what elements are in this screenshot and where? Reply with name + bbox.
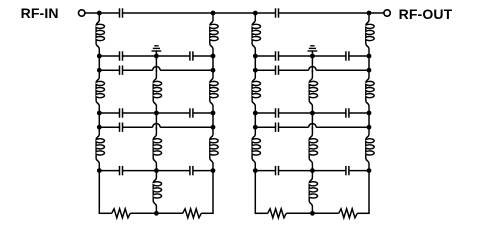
capacitor C6 xyxy=(190,108,193,117)
wire xyxy=(130,212,182,214)
wire xyxy=(357,212,369,214)
node xyxy=(253,125,258,130)
node xyxy=(253,11,258,16)
wire xyxy=(85,12,99,14)
wire xyxy=(193,112,213,114)
wire xyxy=(99,212,111,214)
capacitor C7 xyxy=(120,123,123,132)
capacitor C12 xyxy=(346,51,349,60)
wire xyxy=(99,69,119,71)
wire xyxy=(279,170,346,172)
wire xyxy=(212,56,214,70)
label RF-IN xyxy=(21,5,59,21)
wire xyxy=(99,112,119,114)
node xyxy=(211,54,216,59)
wire xyxy=(201,212,213,214)
wire xyxy=(368,113,370,127)
node xyxy=(154,111,159,116)
inductor L13 xyxy=(309,70,317,113)
inductor L17 xyxy=(366,70,374,113)
capacitor C16 xyxy=(276,123,279,132)
wire crossover xyxy=(309,67,316,71)
inductor L10 xyxy=(252,13,260,56)
capacitor C18 xyxy=(346,166,349,175)
wire crossover xyxy=(309,124,316,128)
wire xyxy=(160,69,213,71)
inductor L2 xyxy=(96,70,104,113)
wire xyxy=(123,112,190,114)
wire xyxy=(193,55,213,57)
node xyxy=(211,125,216,130)
node xyxy=(367,68,372,73)
node xyxy=(310,168,315,173)
node xyxy=(211,11,216,16)
wire xyxy=(311,113,313,129)
wire xyxy=(123,55,190,57)
ground xyxy=(308,46,318,56)
wire xyxy=(255,212,267,214)
node xyxy=(367,54,372,59)
node xyxy=(253,68,258,73)
wire xyxy=(349,55,369,57)
capacitor C13 xyxy=(276,66,279,75)
wire xyxy=(212,171,214,214)
capacitor C8 xyxy=(120,166,123,175)
node xyxy=(310,211,315,216)
capacitor C15 xyxy=(346,108,349,117)
wire xyxy=(279,126,309,128)
wire xyxy=(316,69,369,71)
capacitor C11 xyxy=(276,51,279,60)
resistor R3 xyxy=(268,209,287,218)
wire xyxy=(255,12,275,14)
resistor R2 xyxy=(183,209,202,218)
wire xyxy=(254,56,256,70)
inductor L1 xyxy=(96,13,104,56)
node xyxy=(154,168,159,173)
node xyxy=(253,111,258,116)
wire xyxy=(99,126,119,128)
inductor L7 xyxy=(210,13,218,56)
capacitor C1 xyxy=(120,8,123,17)
node xyxy=(367,125,372,130)
inductor L14 xyxy=(309,127,317,170)
inductor L3 xyxy=(96,127,104,170)
label RF-OUT xyxy=(399,6,453,22)
wire xyxy=(255,126,275,128)
wire xyxy=(193,170,213,172)
wire xyxy=(279,55,346,57)
wire xyxy=(255,170,275,172)
capacitor C4 xyxy=(120,66,123,75)
wire xyxy=(279,69,309,71)
wire xyxy=(99,170,119,172)
wire xyxy=(98,171,100,214)
wire xyxy=(123,126,153,128)
capacitor C9 xyxy=(190,166,193,175)
wire xyxy=(98,113,100,127)
wire xyxy=(255,112,275,114)
node xyxy=(310,54,315,59)
node xyxy=(154,54,159,59)
node xyxy=(211,111,216,116)
node xyxy=(211,168,216,173)
node xyxy=(253,168,258,173)
node xyxy=(253,54,258,59)
wire xyxy=(123,69,153,71)
RF-IN terminal xyxy=(79,10,85,16)
node xyxy=(367,111,372,116)
resistor R1 xyxy=(112,209,131,218)
resistor R4 xyxy=(339,209,358,218)
wire xyxy=(155,56,157,72)
node xyxy=(97,111,102,116)
inductor L15 xyxy=(309,171,317,214)
wire xyxy=(316,126,369,128)
inductor L18 xyxy=(366,127,374,170)
inductor L8 xyxy=(210,70,218,113)
inductor L16 xyxy=(366,13,374,56)
capacitor C3 xyxy=(190,51,193,60)
wire xyxy=(254,171,256,214)
inductor L6 xyxy=(153,171,161,214)
node xyxy=(97,11,102,16)
wire xyxy=(255,69,275,71)
node xyxy=(211,68,216,73)
wire xyxy=(255,55,275,57)
capacitor C10 xyxy=(276,8,279,17)
inductor L5 xyxy=(153,127,161,170)
wire crossover xyxy=(153,66,160,70)
wire xyxy=(279,12,384,14)
wire crossover xyxy=(153,123,160,127)
ground xyxy=(152,46,162,56)
RF-OUT terminal xyxy=(384,10,390,16)
node xyxy=(154,211,159,216)
capacitor C14 xyxy=(276,108,279,117)
wire xyxy=(368,56,370,70)
inductor L4 xyxy=(153,70,161,113)
wire xyxy=(212,113,214,127)
wire xyxy=(98,56,100,70)
wire xyxy=(279,112,346,114)
wire xyxy=(368,171,370,214)
node xyxy=(97,54,102,59)
inductor L12 xyxy=(252,127,260,170)
node xyxy=(310,111,315,116)
node xyxy=(367,11,372,16)
wire xyxy=(349,112,369,114)
node xyxy=(97,168,102,173)
capacitor C2 xyxy=(120,51,123,60)
inductor L11 xyxy=(252,70,260,113)
wire xyxy=(254,113,256,127)
node xyxy=(97,68,102,73)
capacitor C5 xyxy=(120,108,123,117)
wire xyxy=(99,12,119,14)
node xyxy=(97,125,102,130)
wire xyxy=(311,56,313,72)
wire xyxy=(99,55,119,57)
wire xyxy=(349,170,369,172)
wire xyxy=(155,113,157,129)
wire xyxy=(286,212,338,214)
inductor L9 xyxy=(210,127,218,170)
capacitor C17 xyxy=(276,166,279,175)
wire xyxy=(123,12,256,14)
wire xyxy=(123,170,190,172)
node xyxy=(367,168,372,173)
wire xyxy=(160,126,213,128)
